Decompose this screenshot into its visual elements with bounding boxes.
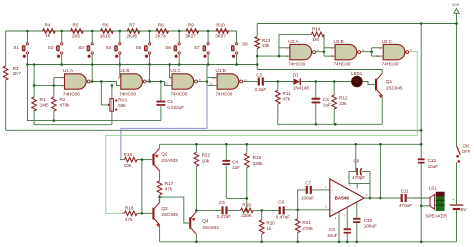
wire D1 to LED [301,81,352,83]
wire inverting input line [298,190,306,210]
svg-text:Q2: Q2 [161,152,168,157]
capacitor C10 column [356,202,358,218]
svg-text:470uF: 470uF [399,203,412,208]
svg-text:2SA933: 2SA933 [202,225,219,230]
wire C4 bottom join R18 [226,197,247,199]
nand gate U1:A [65,74,87,89]
wire amplifier ground rail [160,241,457,243]
resistor R8 [156,29,169,34]
svg-text:R6: R6 [103,23,109,28]
wire U2:A output to U2:B inputs [316,51,325,53]
wire R1 bottom to RV1 bottom [34,111,112,125]
svg-text:0.47uF: 0.47uF [276,215,290,220]
svg-text:R8: R8 [158,23,164,28]
wire LED to Q1 base [362,82,375,85]
resistor R20 [259,220,264,234]
resistor R16 [124,211,137,216]
svg-text:U2:C: U2:C [382,39,393,44]
capacitor C8 feedback loop [349,172,356,184]
transistor Q1 [375,79,377,91]
capacitor C9 [344,228,351,230]
wire Q2 emitter to rail [159,144,161,148]
resistor R14 [311,32,324,37]
svg-text:74HC00: 74HC00 [334,62,351,67]
wire U2:A input link [278,34,280,56]
svg-text:SPEAKER: SPEAKER [425,214,447,219]
wire C8 rail drop [355,144,357,171]
svg-text:47k: 47k [165,187,173,192]
svg-text:R12: R12 [339,95,348,100]
capacitor C4 [222,160,230,162]
capacitor C11 [401,194,403,202]
svg-text:C1: C1 [167,99,173,104]
switch ON/OFF [457,146,461,155]
svg-text:U1:B: U1:B [119,68,129,73]
wire C12 column [420,144,422,158]
svg-text:74HC00: 74HC00 [382,62,399,67]
wire R16 to Q3 base [122,212,124,214]
op-amp U3 BA546 [330,179,364,217]
svg-text:2K18: 2K18 [100,33,111,38]
wire U1:D input stubs [207,77,217,79]
switch S1 [26,31,28,43]
svg-text:1M: 1M [312,37,319,42]
svg-text:2SA933: 2SA933 [161,158,178,163]
svg-text:10k: 10k [262,43,270,48]
wire U1:D output to C2 [243,81,258,83]
svg-text:3K67: 3K67 [215,33,226,38]
svg-text:C4: C4 [232,159,238,164]
wire VDD feed column to amplifier [420,24,422,145]
svg-text:BA546: BA546 [335,196,350,201]
svg-text:100uF: 100uF [301,195,314,200]
wire U1:D input link from S7 column [206,65,208,86]
svg-text:47k: 47k [125,217,133,222]
svg-text:10uF: 10uF [428,164,439,169]
wire VDD rail right edge [456,13,458,146]
resistor R19 [241,208,254,213]
svg-text:470pF: 470pF [352,175,365,180]
svg-text:10k: 10k [124,163,132,168]
svg-text:D1: D1 [293,73,299,78]
wire C2 to R11 junction [263,81,293,83]
wire R14 line [279,33,311,35]
svg-text:S7: S7 [194,45,200,50]
wire border bottom to VDD column [6,129,422,131]
resistor R4 [43,29,56,34]
wire base feedback link [141,160,143,214]
potentiometer RV1 [110,99,114,112]
wire U1:A output [90,81,117,83]
capacitor C6 [279,206,281,214]
svg-text:470k: 470k [60,103,71,108]
svg-text:74HC00: 74HC00 [216,92,233,97]
svg-text:R17: R17 [165,181,174,186]
svg-text:C12: C12 [428,158,437,163]
capacitor C8 [356,168,358,175]
resistor R5 [71,29,84,34]
battery BT1 6V [450,204,464,205]
wire U1:C output [198,81,208,83]
resistor R12 column [333,82,335,96]
switch S8 [236,31,238,43]
svg-text:3K27: 3K27 [185,33,196,38]
svg-text:1uF: 1uF [323,103,331,108]
svg-text:74HC00: 74HC00 [288,62,305,67]
wire S3 column to output A [91,65,93,82]
svg-text:1N4148: 1N4148 [293,86,310,91]
wire U2:B output to U2:C inputs [361,51,372,53]
diode D1 [293,78,299,85]
capacitor C2 [258,78,260,86]
wire Q1 emitter to ground rail [381,96,383,124]
svg-text:0.022uF: 0.022uF [167,105,184,110]
wire RV1 top feed [111,85,113,98]
switch S7 [207,31,209,43]
wire C5 to R19 [227,209,241,211]
resistor R21 column [297,210,299,219]
svg-text:RV1: RV1 [118,97,127,102]
wire U1:A input1 feed from R2 column [54,77,65,79]
wire R19 to C6 [253,209,278,211]
wire C6 to opamp noninverting input [284,209,330,211]
switch S6 [178,31,180,43]
capacitor C3 [311,98,320,100]
wire C7 to opamp [312,189,330,191]
svg-text:+: + [331,208,333,212]
power VDD symbol [454,8,459,13]
capacitor C7 [306,186,308,194]
svg-text:U1:C: U1:C [170,68,181,73]
capacitor C5 [221,206,223,214]
capacitor C10 [353,218,360,220]
svg-text:74HC00: 74HC00 [63,92,80,97]
wire U2:B input link [323,48,325,56]
svg-text:C2: C2 [256,73,262,78]
wire U1:B input2 link [117,82,121,86]
wire U1:A input2 feed [34,84,64,86]
svg-text:47k: 47k [283,97,291,102]
svg-text:S8: S8 [242,41,248,46]
switch S5 [149,31,151,43]
resistor R22 column [195,144,197,152]
svg-text:6V: 6V [461,207,468,212]
svg-text:R18: R18 [253,155,262,160]
svg-text:1k: 1k [266,226,272,231]
wire RV1 bottom drop [111,111,113,125]
switch S3 [91,31,93,43]
svg-text:R1: R1 [40,97,46,102]
wire switch to battery [456,162,458,204]
svg-text:R21: R21 [302,220,311,225]
svg-text:R4: R4 [45,23,51,28]
capacitor C12 [418,158,425,160]
svg-text:50k: 50k [118,103,126,108]
wire R2 bottom drop [53,111,55,121]
svg-text:22k: 22k [339,101,347,106]
svg-text:S3: S3 [78,45,84,50]
svg-text:R2: R2 [60,97,66,102]
svg-text:Q4: Q4 [202,218,209,223]
svg-text:C9: C9 [329,227,335,232]
svg-text:S1: S1 [13,45,19,50]
transistor Q2 [152,154,154,166]
capacitor C9 column [346,207,348,228]
svg-text:2K74: 2K74 [155,33,166,38]
svg-text:10: 10 [376,54,380,58]
capacitor C3 column [315,82,317,98]
svg-text:−: − [331,189,333,193]
wire blue signal net [121,85,207,159]
svg-text:3.3uF: 3.3uF [254,87,266,92]
nand gate U2:B [335,44,357,59]
wire Q3 collector node to Q4 base [160,197,190,223]
svg-text:C10: C10 [364,218,373,223]
junctions on switch bus [26,63,29,66]
resistor R17 [157,181,162,195]
wire speaker lower terminal [421,205,430,207]
svg-text:R5: R5 [73,23,79,28]
nand gate U2:A [290,44,312,59]
svg-text:U1:D: U1:D [216,68,227,73]
resistor R11 column [277,82,279,91]
svg-text:100uF: 100uF [364,224,377,229]
svg-text:C8: C8 [353,158,359,163]
svg-text:R22: R22 [202,153,211,158]
svg-text:R15: R15 [124,152,133,157]
nand gate U1:B [121,74,143,89]
resistor R1 [32,97,37,111]
nand gate U1:C [172,74,194,89]
resistor R3 [3,66,8,80]
wire Q1 collector to R13 node [257,70,382,74]
svg-text:C11: C11 [401,189,410,194]
svg-text:C6: C6 [278,199,284,204]
capacitor C1 [156,101,165,103]
speaker LS1 [430,194,435,209]
svg-text:2K7: 2K7 [13,71,22,76]
svg-text:330k: 330k [253,161,264,166]
resistor R6 [101,29,114,34]
svg-text:U2:B: U2:B [334,39,344,44]
svg-text:R3: R3 [13,66,19,71]
svg-text:R16: R16 [125,206,134,211]
svg-text:12: 12 [212,76,216,80]
wire opamp output line [364,197,400,199]
svg-text:1K5: 1K5 [72,33,81,38]
LED LED1 [352,76,363,87]
switch S4 [119,31,121,43]
svg-text:S6: S6 [165,45,171,50]
svg-text:74HC00: 74HC00 [170,92,187,97]
resistor R9 [186,29,199,34]
nand gate U2:C [383,44,405,59]
nand gate U1:D [217,74,239,89]
wire top ladder rail [6,30,237,32]
wire preamp output line [196,209,221,211]
resistor R15 [124,157,137,162]
svg-text:LED1: LED1 [351,71,363,76]
resistor R10 [216,29,229,34]
wire opamp pin 4 ground column [338,212,340,242]
resistor R12 [332,95,337,109]
svg-text:1k: 1k [45,33,51,38]
svg-text:+: + [452,197,455,202]
resistor R2 [52,97,57,111]
wire Q2 collector to R17 [159,171,161,181]
svg-text:R7: R7 [129,23,135,28]
wire RV1 wiper tap [101,82,108,105]
svg-text:R11: R11 [283,91,292,96]
resistor R7 [127,29,140,34]
resistor R11 [276,90,281,104]
wire S5 column to output B [149,65,151,82]
svg-text:Q1: Q1 [386,79,393,84]
svg-text:2K45: 2K45 [127,33,138,38]
wire switch bus [27,64,257,66]
svg-text:R19: R19 [242,202,251,207]
svg-text:0.47uF: 0.47uF [217,214,231,219]
resistor R13 [255,37,260,49]
svg-text:2SC945: 2SC945 [386,85,403,90]
wire net R2/C1 bottom return [27,65,161,121]
resistor R21 [295,219,300,233]
capacitor C1 column [160,82,162,101]
svg-text:ON: ON [463,143,469,148]
svg-text:C3: C3 [323,97,329,102]
wire U2:C input link [371,48,373,56]
switch S2 [61,31,63,43]
wire opamp power drop [379,144,381,198]
svg-text:2SC945: 2SC945 [161,212,178,217]
svg-text:270K: 270K [302,226,314,231]
resistor R22 [194,152,199,166]
capacitor C4 column [225,144,227,160]
svg-text:S4: S4 [106,45,112,50]
wire U2:A input stubs [279,47,290,49]
svg-text:OFF: OFF [462,149,471,154]
wire battery to ground rail [456,210,458,242]
svg-text:R20: R20 [266,220,275,225]
wire S4 column to U1:B input1 [120,65,121,78]
svg-text:R14: R14 [312,27,321,32]
wire top right rail [257,23,456,25]
wire R13 column [256,24,258,37]
svg-text:U2:A: U2:A [288,39,299,44]
wire Q3 emitter to ground rail [159,225,161,242]
wire R13 bottom to U2:A inputs [257,55,279,57]
svg-text:10k: 10k [202,158,210,163]
svg-text:10uF: 10uF [327,233,338,238]
wire U1:C input1 drop [170,65,172,78]
svg-text:U1:A: U1:A [63,68,74,73]
svg-text:Q3: Q3 [161,206,168,211]
wire left border vertical [5,31,7,66]
wire R15 to Q2 base [120,159,125,161]
svg-text:220K: 220K [241,213,253,218]
resistor R20 column [261,210,263,219]
svg-text:S2: S2 [48,45,54,50]
junctions on top rail [26,30,29,33]
svg-text:C5: C5 [219,200,225,205]
transistor Q4 [189,217,191,229]
svg-text:LS1: LS1 [429,186,438,191]
svg-text:R10: R10 [216,23,225,28]
wire U1:B output [146,81,164,83]
wire Q3 collector stub [159,197,161,202]
svg-text:VDD: VDD [452,3,460,7]
wire R1 column from bus [33,65,35,98]
wire Q4 emitter to ground rail [195,234,197,242]
transistor Q3 [152,208,154,220]
svg-text:74HC00: 74HC00 [119,92,136,97]
svg-text:S5: S5 [136,45,142,50]
resistor R18 column [246,144,248,153]
resistor R18 [245,154,250,168]
svg-text:1uF: 1uF [232,165,240,170]
svg-text:1M5: 1M5 [40,103,49,108]
wire R17 bottom to Q3 collector [159,195,161,203]
wire R11 bottom to ground rail [278,104,382,124]
wire light green enable net [106,52,417,214]
wire amplifier V+ rail [160,143,422,145]
wire U1:C input2 link [165,82,173,86]
svg-text:C7: C7 [305,180,311,185]
svg-text:R9: R9 [188,23,194,28]
wire C11 to speaker [407,197,430,199]
